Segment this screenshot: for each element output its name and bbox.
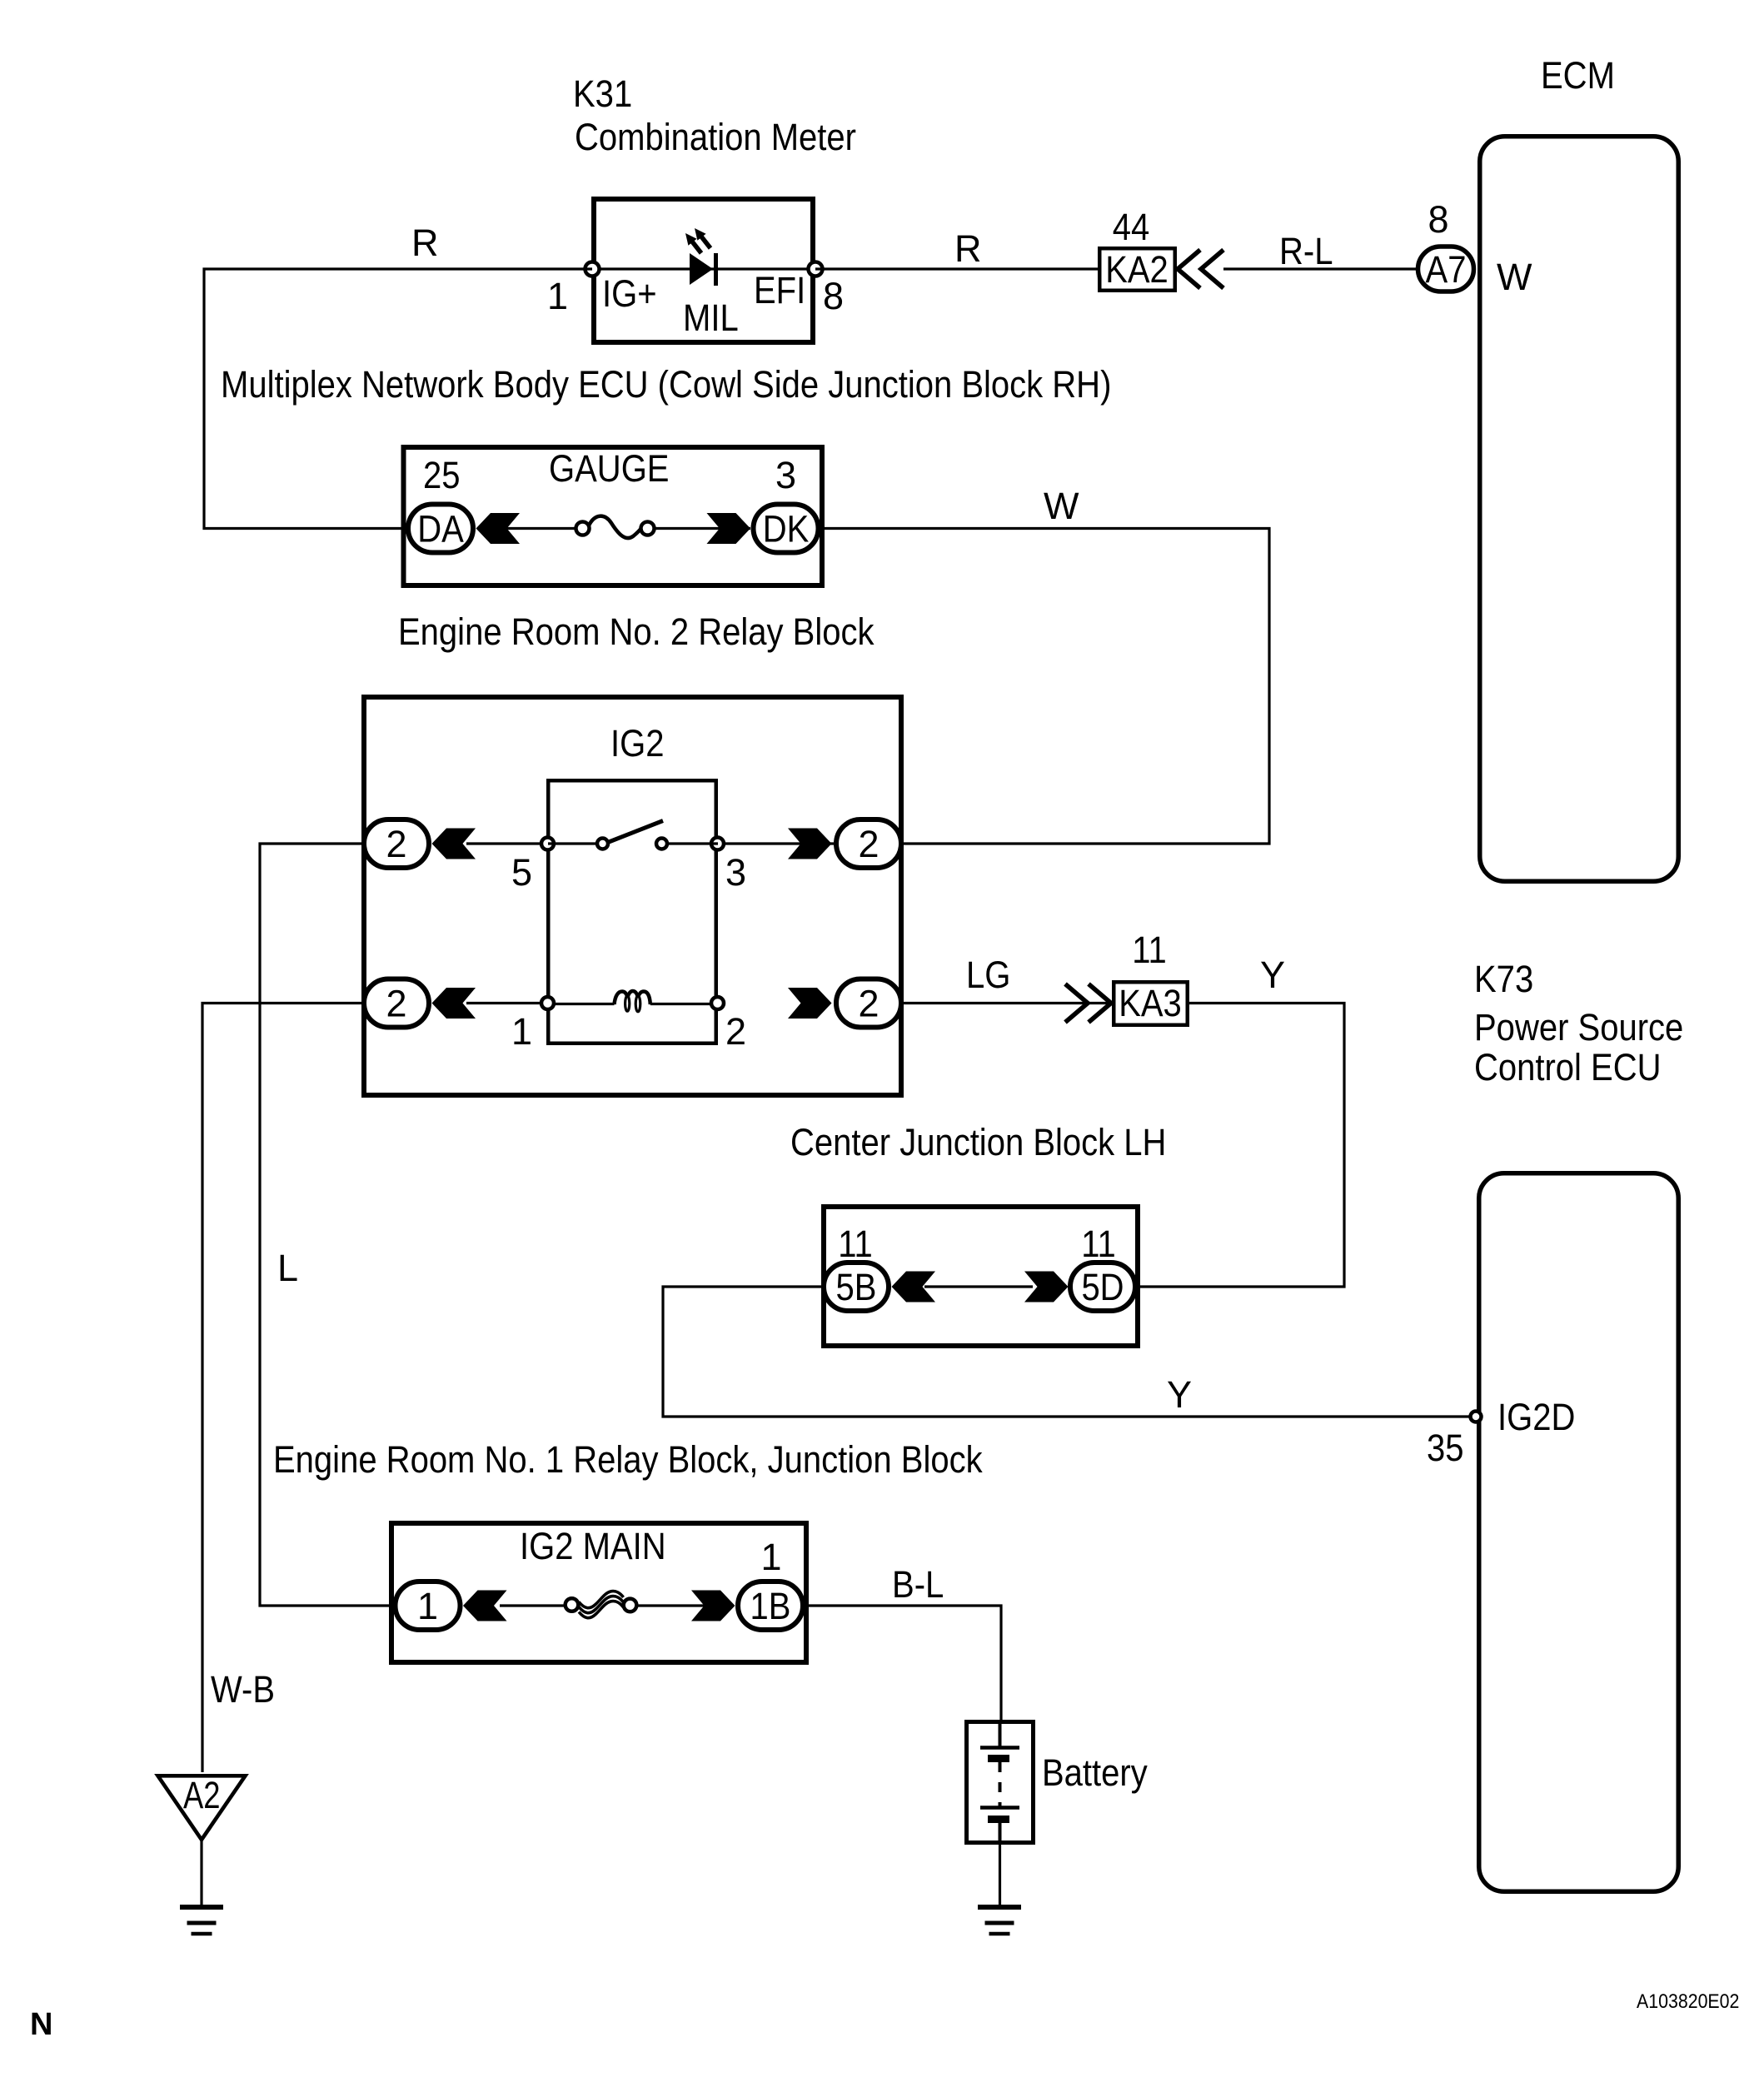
arrow left (IG2 MAIN) xyxy=(463,1591,507,1621)
pin 2 oval (IG2 bottom-right) xyxy=(836,979,901,1028)
relay terminal 1 xyxy=(541,997,554,1009)
svg-text:GAUGE: GAUGE xyxy=(549,447,670,490)
relay switch contacts and blade xyxy=(597,821,667,849)
ground (battery) xyxy=(978,1907,1021,1934)
svg-text:IG+: IG+ xyxy=(602,272,657,315)
svg-text:5B: 5B xyxy=(836,1266,877,1308)
wire B-L (1B to battery) xyxy=(805,1606,1001,1721)
wire Y (KA3 to center junction 5D) xyxy=(1138,1004,1344,1288)
wire relay contact lead left xyxy=(548,842,597,844)
ground (A2) xyxy=(180,1907,223,1934)
svg-text:IG2D: IG2D xyxy=(1497,1396,1575,1438)
svg-text:A103820E02: A103820E02 xyxy=(1637,1990,1739,2013)
relay coil symbol xyxy=(615,991,650,1012)
wire IG2 MAIN internal left xyxy=(500,1604,566,1606)
pin 1 oval (IG2 MAIN) xyxy=(396,1581,461,1630)
block IG2 relay outer box xyxy=(364,697,901,1095)
pin 8 terminal circle (meter EFI) xyxy=(809,262,823,276)
svg-text:L: L xyxy=(277,1247,298,1289)
arrow left (IG2 top) xyxy=(432,829,476,859)
svg-text:2: 2 xyxy=(386,823,406,865)
arrow right (DK) xyxy=(707,513,751,544)
svg-text:Engine Room No. 1 Relay Block,: Engine Room No. 1 Relay Block, Junction … xyxy=(273,1438,983,1481)
block center junction box xyxy=(824,1207,1138,1346)
block GAUGE fuse box xyxy=(404,447,823,585)
wire R (meter pin 8 to KA2) xyxy=(815,267,1098,270)
svg-text:3: 3 xyxy=(775,454,796,496)
svg-text:2: 2 xyxy=(725,1010,746,1053)
svg-text:11: 11 xyxy=(1081,1223,1116,1265)
svg-text:1: 1 xyxy=(547,275,568,317)
relay terminal 3 xyxy=(711,838,724,850)
block battery box xyxy=(967,1722,1034,1843)
svg-text:W: W xyxy=(1044,485,1079,527)
svg-text:R-L: R-L xyxy=(1279,230,1333,272)
wire battery to ground xyxy=(999,1845,1001,1907)
svg-text:25: 25 xyxy=(423,454,461,496)
arrow left (DA) xyxy=(476,513,521,544)
relay terminal 5 xyxy=(541,838,554,850)
svg-text:11: 11 xyxy=(838,1223,873,1265)
svg-text:44: 44 xyxy=(1113,206,1150,248)
wire L (IG2 relay pin 2 to IG2 MAIN fuse) xyxy=(260,844,395,1606)
svg-text:Battery: Battery xyxy=(1042,1751,1148,1794)
svg-text:DK: DK xyxy=(763,508,810,550)
svg-text:11: 11 xyxy=(1132,929,1167,971)
wire IG2 MAIN internal right xyxy=(637,1604,707,1606)
svg-text:R: R xyxy=(954,227,982,270)
pin A7 oval (ECM) xyxy=(1418,247,1474,291)
svg-text:1: 1 xyxy=(511,1010,532,1053)
svg-text:2: 2 xyxy=(858,823,879,865)
block IG2 MAIN box xyxy=(391,1523,806,1662)
svg-text:1B: 1B xyxy=(750,1585,791,1627)
pin 5B oval xyxy=(824,1263,889,1311)
pin DA oval xyxy=(408,505,473,553)
wire IG2 coil lead right xyxy=(650,1003,715,1005)
pin DK oval xyxy=(754,505,819,553)
wire W-B (IG2 relay to ground A2) xyxy=(202,1004,364,1773)
svg-text:KA3: KA3 xyxy=(1119,982,1182,1024)
svg-text:N: N xyxy=(30,2007,52,2042)
svg-text:DA: DA xyxy=(417,508,464,550)
block ECM box xyxy=(1480,137,1679,882)
svg-text:8: 8 xyxy=(823,275,844,317)
wire R-L (KA2 to ECM A7) xyxy=(1223,267,1419,270)
ground connector A2 triangle xyxy=(158,1774,246,1840)
svg-text:W: W xyxy=(1497,256,1532,298)
svg-text:B-L: B-L xyxy=(892,1563,944,1606)
connector KA3 box xyxy=(1114,982,1188,1025)
svg-text:5: 5 xyxy=(511,851,532,894)
pin 2 oval (IG2 top-right) xyxy=(836,819,901,868)
battery cells symbol xyxy=(980,1721,1019,1842)
svg-text:Multiplex Network Body ECU (Co: Multiplex Network Body ECU (Cowl Side Ju… xyxy=(221,363,1111,406)
pin 1 terminal circle (meter IG+) xyxy=(586,262,600,276)
arrow right (IG2 bottom) xyxy=(788,988,832,1019)
svg-text:Engine Room No. 2 Relay Block: Engine Room No. 2 Relay Block xyxy=(398,610,875,653)
svg-text:ECM: ECM xyxy=(1541,54,1615,97)
arrow left (5B) xyxy=(892,1272,936,1303)
relay terminal 2 xyxy=(711,997,724,1009)
svg-text:W-B: W-B xyxy=(211,1668,275,1711)
LED MIL (diode triangle, cathode bar, emission arrows) xyxy=(685,228,716,286)
block power source control ECU box xyxy=(1479,1173,1679,1892)
pin 5D oval xyxy=(1070,1263,1135,1311)
svg-text:2: 2 xyxy=(858,983,879,1025)
svg-text:IG2: IG2 xyxy=(610,722,665,765)
svg-text:Power Source: Power Source xyxy=(1474,1006,1683,1048)
svg-text:35: 35 xyxy=(1427,1427,1464,1469)
pin 1B oval xyxy=(738,1581,803,1630)
pin 2 oval (IG2 bottom-left) xyxy=(364,979,429,1028)
wire center junction internal xyxy=(924,1285,1033,1288)
svg-text:A2: A2 xyxy=(183,1774,221,1816)
chevron arrows << (KA2) xyxy=(1178,250,1223,288)
wire meter internal (IG+ to EFI) xyxy=(592,267,815,270)
svg-text:1: 1 xyxy=(760,1536,781,1578)
chevron arrows >> (KA3) xyxy=(1065,984,1111,1023)
wire GAUGE internal left xyxy=(500,527,582,530)
wire W (DK to IG2 relay pin 2) xyxy=(820,529,1269,844)
svg-text:Control ECU: Control ECU xyxy=(1474,1046,1662,1088)
fuse GAUGE symbol xyxy=(576,516,655,538)
svg-text:MIL: MIL xyxy=(683,296,739,339)
wire R (meter pin 1 to GAUGE DA) xyxy=(204,269,592,529)
svg-text:3: 3 xyxy=(725,851,746,894)
pin 2 oval (IG2 top-left) xyxy=(364,819,429,868)
arrow right (1B) xyxy=(691,1591,735,1621)
pin IG2D terminal circle xyxy=(1471,1412,1482,1422)
relay IG2 inner box xyxy=(548,780,716,1044)
svg-text:KA2: KA2 xyxy=(1105,248,1169,291)
svg-text:1: 1 xyxy=(417,1585,438,1627)
fusible link IG2 MAIN symbol xyxy=(566,1591,637,1618)
wire IG2 top-left internal xyxy=(466,842,548,844)
wire IG2 top-right internal xyxy=(718,842,834,844)
svg-text:2: 2 xyxy=(386,983,406,1025)
wire IG2 bottom-left internal xyxy=(466,1002,548,1004)
arrow right (5D) xyxy=(1024,1272,1069,1303)
svg-text:Combination Meter: Combination Meter xyxy=(575,116,856,158)
wire LG (IG2 relay to KA3) xyxy=(904,1002,1113,1004)
arrow left (IG2 bottom) xyxy=(432,988,476,1019)
wire A2 to ground xyxy=(200,1840,202,1907)
wire Y (5B to power source control ECU IG2D) xyxy=(663,1287,1471,1417)
svg-text:LG: LG xyxy=(966,954,1010,996)
wire IG2 coil lead left xyxy=(550,1003,615,1005)
svg-text:Y: Y xyxy=(1167,1373,1192,1416)
arrow right (IG2 top) xyxy=(788,829,832,859)
svg-text:K73: K73 xyxy=(1474,958,1533,1000)
svg-text:8: 8 xyxy=(1428,198,1448,241)
svg-text:R: R xyxy=(411,222,439,264)
svg-text:5D: 5D xyxy=(1081,1266,1124,1308)
wire relay contact lead right xyxy=(667,842,718,844)
block combination meter box xyxy=(594,199,813,342)
svg-text:A7: A7 xyxy=(1426,248,1467,291)
connector KA2 box xyxy=(1099,248,1175,291)
wire GAUGE internal right xyxy=(648,527,750,530)
svg-text:Center Junction Block LH: Center Junction Block LH xyxy=(790,1121,1166,1163)
svg-text:EFI: EFI xyxy=(754,269,805,311)
svg-text:IG2 MAIN: IG2 MAIN xyxy=(520,1525,666,1567)
svg-text:Y: Y xyxy=(1260,954,1285,996)
svg-text:K31: K31 xyxy=(573,72,632,115)
